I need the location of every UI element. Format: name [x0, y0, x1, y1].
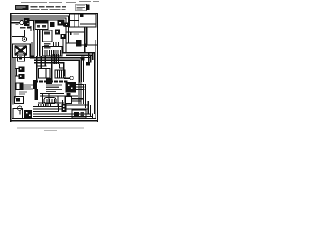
- fuse box (top right): [70, 14, 97, 27]
- wire from cross b down: [62, 39, 63, 53]
- wire out relay right: [82, 44, 97, 45]
- mid-low v bundle: [42, 93, 43, 104]
- center column verticals from relay: [37, 30, 38, 57]
- header right black mark: [86, 5, 90, 11]
- cross component b: [60, 34, 65, 39]
- box with inner divider: [38, 68, 50, 78]
- bus wire top 4: [12, 20, 65, 21]
- fuse box divider 1: [73, 14, 76, 27]
- junction nub: [84, 44, 87, 48]
- bus bend vertical a: [68, 15, 69, 43]
- bulb circle: [18, 106, 22, 110]
- wires right of small box: [72, 98, 84, 99]
- mid-low h wires: [40, 93, 64, 94]
- connector strip with teeth: [42, 46, 62, 56]
- text dashes: [19, 92, 27, 93]
- bus wire top 3: [12, 18, 67, 19]
- right corner verticals: [81, 57, 82, 82]
- small box mid right: [66, 96, 72, 103]
- header table row 1: [31, 6, 67, 7]
- right mid wires: [62, 52, 94, 53]
- center vertical bundle left: [36, 56, 38, 82]
- junction square right: [81, 56, 85, 60]
- fuse box mid line: [70, 19, 80, 22]
- small marks above: [20, 27, 26, 29]
- frame bottom border: [10, 120, 98, 122]
- nub near border: [86, 62, 90, 66]
- wire drop x57: [57, 96, 58, 107]
- bottom bus nested lines: [33, 106, 63, 107]
- bottom connector block: [62, 104, 67, 112]
- center vertical bundle mid: [51, 54, 53, 81]
- inner right border companion: [94, 40, 97, 118]
- corner at 58-62,64-68: [59, 64, 60, 69]
- left wire bundle triple: [12, 58, 13, 105]
- frame right border: [97, 13, 98, 122]
- frame left border: [10, 13, 11, 122]
- right vertical bundle lower: [78, 82, 79, 104]
- circle component center-bottom of white box: [70, 76, 74, 80]
- wires right of X box: [31, 42, 32, 58]
- plus mark cluster: [65, 23, 70, 28]
- vertical wire x30: [30, 26, 31, 31]
- fuse box top tick: [80, 13, 83, 17]
- left circle component M: [12, 36, 24, 37]
- top-left lamp circle: [20, 21, 24, 25]
- wire S2-S3: [16, 68, 17, 76]
- fuse box divider 2: [77, 14, 80, 27]
- left component S2: [15, 68, 18, 69]
- left component S1: [18, 55, 25, 61]
- fuse box inner line right: [80, 23, 96, 26]
- top-left stub wire: [12, 22, 20, 23]
- wires wrapping bottom-right: [66, 104, 88, 105]
- oval component: [44, 98, 56, 104]
- left vertical black bar: [33, 80, 37, 89]
- top-left connector block: [24, 19, 29, 26]
- line under oval: [38, 103, 64, 104]
- frame inner bottom line: [12, 117, 96, 120]
- wire label dash: [74, 34, 80, 35]
- black square on bus: [46, 78, 52, 84]
- text rows dense center: [46, 84, 62, 92]
- comb on bus: [38, 104, 51, 107]
- bottom-left box with circle: [13, 109, 23, 119]
- bottom-left black component: [24, 110, 32, 118]
- wire below fuse box v2: [86, 27, 87, 45]
- right black connector blob: [66, 82, 76, 92]
- control box: [42, 30, 52, 42]
- left component S3: [15, 75, 18, 76]
- stub down x70.5: [70, 31, 71, 35]
- relay black box right: [76, 40, 82, 46]
- header right info box: [76, 4, 87, 11]
- stub wires from blob: [76, 84, 85, 85]
- relay K1 body: [35, 21, 48, 30]
- ignition unit box with X pattern: [13, 44, 31, 58]
- center grid thick h-lines: [34, 57, 82, 59]
- right bundle verticals going down: [88, 52, 89, 62]
- component 53 block: [58, 20, 64, 26]
- cross component a: [55, 29, 60, 34]
- component small box: [50, 22, 54, 27]
- caption text under frame: [17, 127, 84, 128]
- header title text row: [21, 1, 99, 3]
- vertical wire x33: [33, 20, 34, 31]
- left component S5: [14, 96, 23, 103]
- bus wire top 2: [12, 15, 70, 16]
- bottom bus corners up: [62, 100, 63, 107]
- wire from connector: [30, 20, 34, 21]
- wire below fuse box v1: [84, 27, 85, 53]
- left component S4: [16, 83, 23, 90]
- wire into relay left: [66, 42, 76, 43]
- header table row 2: [31, 9, 66, 10]
- relay K1 thick top bar: [35, 21, 48, 24]
- wire h y31.6: [66, 31, 85, 32]
- legend text block small: [23, 84, 33, 89]
- bus bend vertical c: [63, 20, 64, 27]
- bottom-right component box: [72, 110, 86, 118]
- bus wire top 1 (top border): [10, 13, 98, 14]
- bundle above strip: [53, 42, 54, 47]
- bus bend vertical b: [66, 18, 67, 53]
- ground bus dashed bar: [34, 80, 68, 82]
- label h: [16, 24, 19, 25]
- text block mid: [44, 43, 51, 48]
- header logo black bar: [15, 5, 29, 10]
- comb box right: [55, 70, 65, 78]
